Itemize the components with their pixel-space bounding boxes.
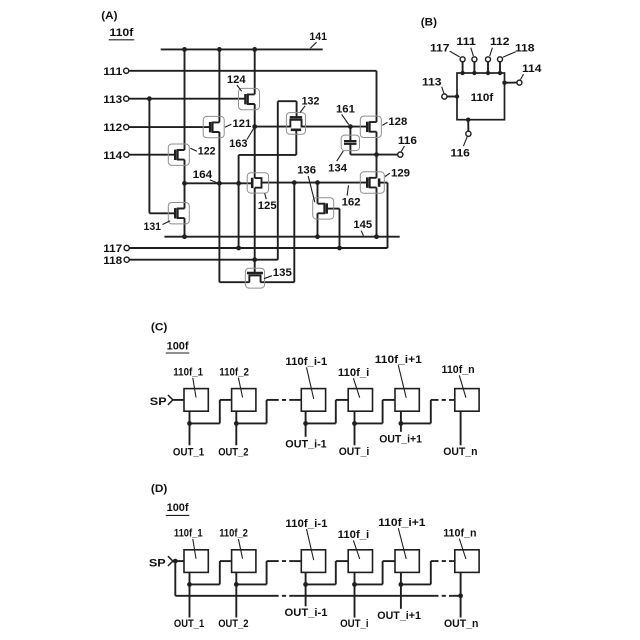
svg-text:(A): (A) <box>101 10 117 22</box>
svg-text:110f_2: 110f_2 <box>219 527 248 539</box>
svg-text:112: 112 <box>103 122 122 134</box>
svg-text:SP: SP <box>149 557 166 569</box>
svg-text:122: 122 <box>198 145 216 157</box>
svg-text:OUT_i-1: OUT_i-1 <box>285 438 326 450</box>
svg-text:OUT_2: OUT_2 <box>218 618 248 630</box>
svg-text:111: 111 <box>456 36 476 48</box>
svg-text:114: 114 <box>522 63 542 75</box>
svg-text:134: 134 <box>328 162 348 174</box>
svg-text:110f_2: 110f_2 <box>219 366 249 378</box>
svg-text:110f: 110f <box>109 27 133 39</box>
svg-text:118: 118 <box>515 43 535 55</box>
svg-text:131: 131 <box>144 221 162 233</box>
svg-text:161: 161 <box>336 104 355 116</box>
svg-text:110f_1: 110f_1 <box>174 527 203 539</box>
svg-text:OUT_i: OUT_i <box>339 446 370 458</box>
svg-text:OUT_i+1: OUT_i+1 <box>379 433 422 445</box>
svg-text:OUT_2: OUT_2 <box>218 446 248 458</box>
svg-text:124: 124 <box>227 74 246 86</box>
svg-text:(B): (B) <box>421 17 437 29</box>
svg-text:121: 121 <box>233 118 252 130</box>
svg-text:OUT_1: OUT_1 <box>173 446 204 458</box>
svg-text:SP: SP <box>150 396 167 408</box>
svg-text:116: 116 <box>450 148 470 160</box>
svg-text:117: 117 <box>103 243 122 255</box>
svg-text:110f: 110f <box>471 92 494 104</box>
svg-text:OUT_i: OUT_i <box>340 618 369 630</box>
svg-text:113: 113 <box>103 94 122 106</box>
svg-text:100f: 100f <box>167 340 189 352</box>
svg-text:164: 164 <box>193 169 213 181</box>
svg-text:110f_i-1: 110f_i-1 <box>285 518 327 530</box>
svg-text:116: 116 <box>398 135 417 147</box>
svg-text:110f_i: 110f_i <box>338 367 369 379</box>
svg-text:110f_i+1: 110f_i+1 <box>375 354 422 366</box>
svg-text:114: 114 <box>103 150 123 162</box>
svg-text:111: 111 <box>103 66 122 78</box>
svg-text:129: 129 <box>391 167 410 179</box>
svg-text:OUT_n: OUT_n <box>444 618 479 630</box>
svg-text:OUT_n: OUT_n <box>443 446 477 458</box>
svg-text:(D): (D) <box>151 483 168 495</box>
svg-text:141: 141 <box>309 31 327 43</box>
svg-text:117: 117 <box>430 43 450 55</box>
svg-text:125: 125 <box>258 200 277 212</box>
svg-text:135: 135 <box>273 267 292 279</box>
svg-text:132: 132 <box>302 96 320 108</box>
svg-text:136: 136 <box>297 165 316 177</box>
svg-text:110f_n: 110f_n <box>442 364 475 376</box>
svg-text:163: 163 <box>229 138 247 150</box>
svg-text:110f_i+1: 110f_i+1 <box>378 517 425 529</box>
svg-text:OUT_1: OUT_1 <box>174 618 204 630</box>
svg-text:OUT_i-1: OUT_i-1 <box>285 607 328 619</box>
svg-text:162: 162 <box>342 197 361 209</box>
svg-text:100f: 100f <box>167 502 189 514</box>
svg-text:110f_1: 110f_1 <box>173 366 203 378</box>
svg-text:113: 113 <box>422 76 442 88</box>
svg-text:110f_i-1: 110f_i-1 <box>285 356 327 368</box>
svg-text:OUT_i+1: OUT_i+1 <box>377 610 421 622</box>
svg-text:110f_n: 110f_n <box>443 527 477 539</box>
svg-text:118: 118 <box>103 255 122 267</box>
svg-text:128: 128 <box>388 116 407 128</box>
svg-text:112: 112 <box>490 36 510 48</box>
svg-text:145: 145 <box>353 219 372 231</box>
svg-text:(C): (C) <box>151 321 168 333</box>
svg-text:110f_i: 110f_i <box>338 529 370 541</box>
